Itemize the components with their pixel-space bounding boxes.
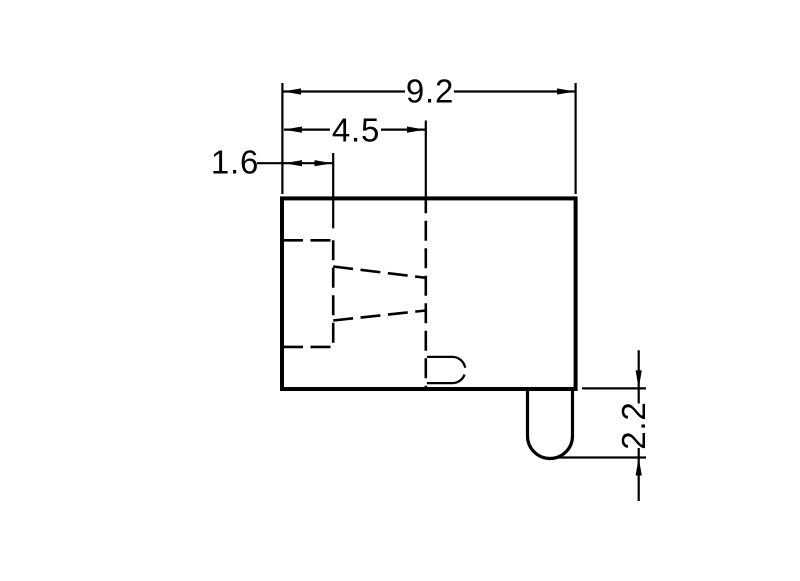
arrowhead 2.2 top (pointing down) xyxy=(636,370,642,388)
extension line left (x=282) xyxy=(281,83,283,194)
pin (rounded lead below body) xyxy=(528,390,573,459)
arrowhead 4.5 left xyxy=(284,127,302,133)
arrowhead 9.2 right xyxy=(557,88,575,94)
hidden dashed: lower slant of funnel xyxy=(333,311,426,321)
dimension line 4.5 xyxy=(284,129,425,131)
body outline rectangle xyxy=(282,198,576,389)
svg-text:2.2: 2.2 xyxy=(615,401,652,449)
arrowhead 2.2 bottom (pointing up) xyxy=(636,458,642,476)
arrowhead 1.6 left xyxy=(284,160,302,166)
svg-text:9.2: 9.2 xyxy=(406,73,454,110)
hidden dashed: centre vertical at 4.5 xyxy=(424,198,427,389)
svg-text:1.6: 1.6 xyxy=(211,144,259,181)
hidden dashed: vertical of inner recess xyxy=(332,240,335,347)
arrowhead 1.6 right xyxy=(315,160,333,166)
dimension line 2.2 (vertical, arrows outside) xyxy=(638,350,640,501)
hidden dashed: top horizontal of inner recess xyxy=(283,239,333,242)
svg-text:4.5: 4.5 xyxy=(332,112,380,149)
dimension line 9.2 xyxy=(283,90,575,92)
dimension line 1.6 with leader xyxy=(257,162,333,164)
hidden dashed: bottom horizontal of inner recess xyxy=(283,346,333,349)
arrowhead 4.5 right xyxy=(407,127,425,133)
arrowhead 9.2 left xyxy=(283,88,301,94)
extension line 2.2 bottom xyxy=(558,456,646,458)
extension line 2.2 top xyxy=(582,387,646,389)
extension line right (x=576) xyxy=(574,83,576,194)
extension line 4.5 xyxy=(425,121,427,197)
extension line 1.6 xyxy=(332,153,334,228)
hidden dashed: D-shaped socket outline xyxy=(427,357,466,383)
hidden dashed: upper slant of funnel xyxy=(333,267,426,278)
